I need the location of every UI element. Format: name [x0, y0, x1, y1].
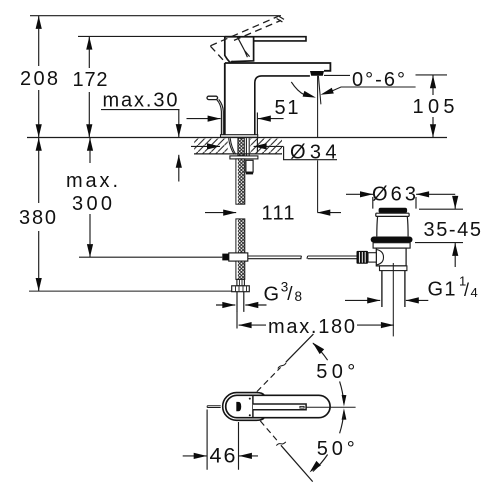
svg-text:35-45: 35-45	[424, 219, 482, 241]
drain: plug cap (black)	[379, 208, 408, 213]
lever handle bar	[225, 37, 306, 41]
shank in counter hole: rod curve	[229, 138, 236, 154]
plan view: body right edge	[252, 395, 254, 417]
faucet body column and spout outline	[225, 63, 331, 135]
extension line rod level (max.300 bottom)	[79, 256, 222, 258]
dimension max.300	[89, 138, 91, 257]
drain: under-flange plate	[373, 243, 410, 248]
plan view: body and handle stadium outline	[226, 395, 330, 417]
drain: tailpipe	[382, 271, 405, 307]
svg-text:/: /	[464, 280, 469, 300]
extension line 172 level	[78, 35, 234, 37]
aerator (black)	[310, 71, 324, 76]
svg-text:111: 111	[262, 203, 295, 225]
mounting stud with nut	[246, 160, 253, 172]
drain: knurled knob (black)	[357, 251, 369, 264]
svg-text:8: 8	[295, 289, 303, 304]
supply tube end	[237, 292, 244, 312]
plan view: escutcheon outer outline	[223, 393, 265, 421]
dimension diameter 34 with leader shelf	[191, 146, 337, 159]
rod clamp on hose	[229, 253, 248, 261]
svg-text:/: /	[287, 284, 293, 305]
dimension max.180	[237, 312, 394, 329]
dashed raised lever	[210, 16, 281, 60]
svg-text:Ø34: Ø34	[290, 141, 337, 163]
svg-text:300: 300	[72, 193, 112, 215]
plan view: pop-up rod stub	[207, 406, 221, 408]
stream angle arc arrow left	[291, 82, 304, 95]
svg-text:G: G	[264, 283, 280, 305]
svg-text:G1: G1	[428, 278, 456, 300]
svg-text:105: 105	[413, 96, 455, 118]
dimension diameter 63	[346, 194, 455, 208]
drain: valve body	[376, 248, 406, 266]
flexible hose middle braid	[236, 219, 245, 253]
drain: knob collar	[368, 253, 376, 262]
water stream line	[317, 76, 319, 213]
dimension 172	[88, 37, 90, 138]
extension line top (208 level)	[30, 15, 281, 17]
plan view: lever bar	[253, 404, 306, 410]
swivel arc lower segment 1	[340, 412, 344, 434]
lever handle body	[225, 37, 254, 63]
pop-up rod horizontal left piece	[248, 256, 302, 259]
dimension 46	[183, 410, 258, 470]
swivel line lower (dashed + break + solid)	[260, 421, 277, 440]
stream angle arrow right	[321, 88, 334, 95]
svg-text:max.180: max.180	[268, 316, 355, 338]
svg-text:51: 51	[275, 97, 299, 119]
plan view: center axis line	[307, 406, 356, 408]
countertop line	[27, 137, 447, 139]
pop-up rod horizontal right piece	[307, 256, 357, 259]
leader line under 0-6 label to stream arrow	[333, 87, 416, 91]
svg-text:380: 380	[19, 207, 56, 229]
plan view: aerator mark (black)	[236, 402, 241, 411]
svg-text:max.30: max.30	[103, 90, 178, 112]
plan view: screw dots	[249, 398, 251, 400]
faucet pop-up rod bend (side view)	[217, 99, 224, 134]
drain: centerline	[392, 263, 394, 336]
tilted stream line (6 deg)	[318, 76, 321, 105]
plan view: lever end mark	[300, 406, 304, 408]
flexible hose lower braid	[236, 261, 245, 279]
svg-text:208: 208	[20, 68, 58, 90]
dimension 51	[187, 113, 284, 153]
svg-text:Ø63: Ø63	[372, 183, 416, 205]
dimension 111	[205, 212, 341, 214]
drain: plug skirt	[376, 213, 409, 236]
rod clamp screw block (black)	[222, 254, 229, 261]
drain: body pocket arc	[376, 250, 383, 266]
G3/8 connector nut	[232, 286, 250, 292]
dimension 380	[38, 138, 40, 291]
dimension G3/8	[216, 304, 267, 306]
hose collar	[237, 279, 245, 285]
dimension 105	[432, 75, 434, 137]
dimension 208	[38, 16, 40, 137]
swivel arc upper segment 2	[340, 381, 344, 403]
counter bottom line	[194, 153, 282, 155]
counter hatch left	[194, 138, 228, 153]
lever body detail lines	[227, 37, 249, 62]
extension line 380 bottom	[29, 290, 232, 292]
shank threaded tube	[238, 138, 244, 156]
drain: washer	[380, 266, 407, 271]
locknut washer	[230, 156, 258, 159]
svg-text:172: 172	[73, 69, 108, 91]
dimension G1 1/4	[345, 299, 428, 301]
counter hatch right	[250, 138, 282, 153]
svg-text:4: 4	[471, 285, 478, 300]
swivel arc lower segment 2 with arrowhead	[313, 455, 328, 472]
shank stud top	[246, 138, 249, 155]
drain: flange (black)	[371, 237, 413, 243]
faucet pop-up rod lever hook (side view)	[207, 96, 218, 99]
svg-text:50°: 50°	[316, 361, 355, 383]
swivel line upper (dashed + break + solid)	[257, 367, 281, 391]
spout underside	[255, 76, 310, 135]
flexible hose upper braid	[236, 159, 245, 204]
faucet base plate	[221, 135, 258, 138]
arc arrowheads at axis	[342, 395, 347, 407]
dimension 35-45	[415, 196, 463, 267]
swivel arc upper segment 1 with arrowhead	[313, 343, 328, 360]
svg-text:50°: 50°	[317, 438, 355, 460]
